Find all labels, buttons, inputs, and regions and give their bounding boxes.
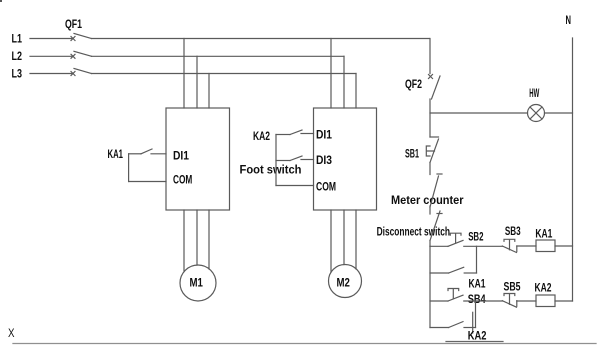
wire KA2 coil to N (555, 300, 573, 302)
pushbutton SB5 actuator (504, 294, 515, 305)
svg-text:SB2: SB2 (468, 230, 483, 244)
wire foot switch to DI3 (301, 159, 314, 161)
wire KA1 aux right (464, 272, 476, 274)
wire branch2 return (475, 301, 477, 328)
breaker QF1 pole1 x-mark (71, 37, 75, 41)
svg-text:HW: HW (529, 86, 539, 100)
wire HW to N (545, 112, 573, 114)
wire COM return (box2) (276, 185, 314, 187)
wire KA1 contact to DI1 (151, 153, 166, 155)
svg-text:QF1: QF1 (65, 17, 82, 31)
pushbutton SB1 actuator (426, 146, 434, 156)
wire L3 right (92, 73, 357, 75)
VFD drive box 2 (314, 108, 377, 210)
svg-text:L3: L3 (12, 67, 23, 81)
pushbutton SB3 tick (516, 246, 518, 252)
motor M1 circle (180, 265, 216, 301)
pushbutton SB4 blade (448, 295, 463, 301)
wire L1 left (30, 38, 72, 40)
breaker QF1 pole2 x-mark (71, 54, 75, 58)
wire drop to motor M2 v (343, 210, 345, 265)
wire L1 corner down to QF2 (429, 39, 431, 74)
wire KA2 label leader (472, 312, 474, 333)
border bottom line (13, 343, 596, 345)
svg-text:KA1: KA1 (108, 147, 124, 161)
svg-text:KA2: KA2 (535, 281, 552, 295)
svg-text:COM: COM (173, 173, 192, 187)
wire drop to motor M1 v (196, 210, 198, 265)
svg-text:DI3: DI3 (316, 153, 332, 167)
rung1: wire to SB2 (430, 245, 448, 247)
svg-text:X: X (8, 326, 15, 340)
wire KA2 underline (446, 341, 503, 343)
svg-text:Disconnect switch: Disconnect switch (377, 225, 450, 239)
breaker QF1 pole1 blade (74, 34, 92, 39)
svg-text:KA1: KA1 (535, 226, 552, 240)
wire drop to motor M1 w (208, 210, 210, 269)
contact disconnect-switch tick (437, 213, 442, 215)
svg-text:QF2: QF2 (405, 77, 422, 91)
contact meter-counter blade (430, 176, 439, 207)
contact KA2 blade (290, 130, 302, 135)
wire drop L3 to VFD2 (355, 74, 357, 109)
svg-text:KA1: KA1 (469, 276, 486, 290)
branch1: wire to KA1 aux contact (430, 272, 449, 274)
contact disconnect-switch blade (430, 211, 440, 241)
wire QF2 to SB1 (429, 99, 431, 137)
lamp HW (528, 105, 545, 122)
wire L1 right (92, 38, 430, 40)
wire L2 left (30, 55, 72, 57)
wire meter to disconnect contact (429, 206, 431, 214)
contact KA1 aux blade (449, 267, 464, 273)
svg-text:L2: L2 (12, 49, 23, 63)
wire L2 right (92, 55, 345, 57)
wire SB1 to meter contact (429, 163, 431, 175)
wire branch1 return (476, 246, 478, 273)
pushbutton SB5 blade (502, 301, 516, 308)
wire SB4 to SB5 (464, 300, 503, 302)
pushbutton SB3 blade (502, 246, 516, 253)
wire HW branch (430, 112, 528, 114)
pushbutton SB4 actuator (448, 289, 459, 299)
wire disconnect to rung1 (429, 241, 431, 247)
wire drop to motor M2 w (355, 210, 357, 269)
wire N bus (572, 38, 574, 301)
wire drop L1 to VFD1 (183, 39, 185, 109)
contact KA2 aux blade (449, 322, 463, 328)
contact KA1 blade (141, 149, 152, 154)
wire KA2 aux right (464, 327, 476, 329)
svg-text:N: N (566, 13, 572, 27)
svg-text:KA2: KA2 (253, 129, 270, 143)
pushbutton SB1 blade (430, 139, 439, 163)
breaker QF1 pole3 blade (74, 69, 92, 74)
corner artifact (0, 0, 2, 2)
svg-text:SB4: SB4 (468, 292, 486, 306)
pushbutton SB3 actuator (504, 239, 515, 250)
wire COM return (box1) (129, 181, 166, 183)
svg-text:SB3: SB3 (505, 224, 521, 238)
pushbutton SB2 blade (448, 240, 463, 246)
branch2: wire to KA2 aux contact (430, 327, 449, 329)
pushbutton SB2 actuator (450, 233, 461, 243)
wire KA1 branch vertical (128, 154, 130, 182)
wire drop L1 to VFD2 (330, 39, 332, 109)
rung2: wire to SB4 (430, 300, 448, 302)
motor M2 circle (329, 265, 362, 298)
contact foot switch blade (290, 156, 302, 161)
svg-text:L1: L1 (12, 31, 23, 45)
pushbutton SB5 tick (516, 301, 518, 307)
breaker QF2 x-mark (429, 75, 433, 79)
svg-text:M2: M2 (337, 276, 351, 290)
wire drop to motor M1 u (183, 210, 185, 271)
wire drop L2 to VFD2 (343, 56, 345, 108)
wire KA2 branch vertical (275, 135, 277, 186)
coil KA1 (536, 240, 555, 252)
wire to KA1 contact (129, 153, 141, 155)
VFD drive box 1 (166, 108, 230, 210)
svg-text:COM: COM (316, 180, 336, 194)
wire SB5 to KA2 coil (517, 300, 536, 302)
breaker QF2 blade (432, 76, 441, 99)
wire L3 left (30, 73, 72, 75)
svg-text:Foot switch: Foot switch (240, 163, 302, 177)
svg-text:SB5: SB5 (504, 280, 521, 294)
wire left bus rung1 to branch2 (429, 246, 431, 327)
wire KA1 coil to N (555, 245, 573, 247)
svg-text:DI1: DI1 (316, 127, 332, 141)
breaker QF1 pole3 x-mark (71, 72, 75, 76)
breaker QF1 pole2 blade (74, 51, 92, 56)
wire drop L3 to VFD1 (208, 74, 210, 109)
coil KA2 (536, 295, 555, 307)
svg-text:KA2: KA2 (468, 329, 487, 343)
wire to foot switch contact (276, 160, 290, 162)
svg-text:M1: M1 (190, 276, 204, 290)
wire SB3 to KA1 coil (517, 245, 536, 247)
wire KA2 contact to DI1 (301, 133, 314, 135)
svg-text:DI1: DI1 (173, 148, 189, 162)
contact meter-counter tick (437, 173, 442, 175)
wire to KA2 contact (276, 134, 290, 136)
svg-text:Meter counter: Meter counter (391, 193, 464, 207)
pushbutton SB1 top tick (430, 136, 439, 138)
wire SB2 to SB3 (464, 245, 503, 247)
svg-text:SB1: SB1 (405, 147, 419, 161)
wire drop L2 to VFD1 (196, 56, 198, 108)
wire drop to motor M2 u (330, 210, 332, 272)
